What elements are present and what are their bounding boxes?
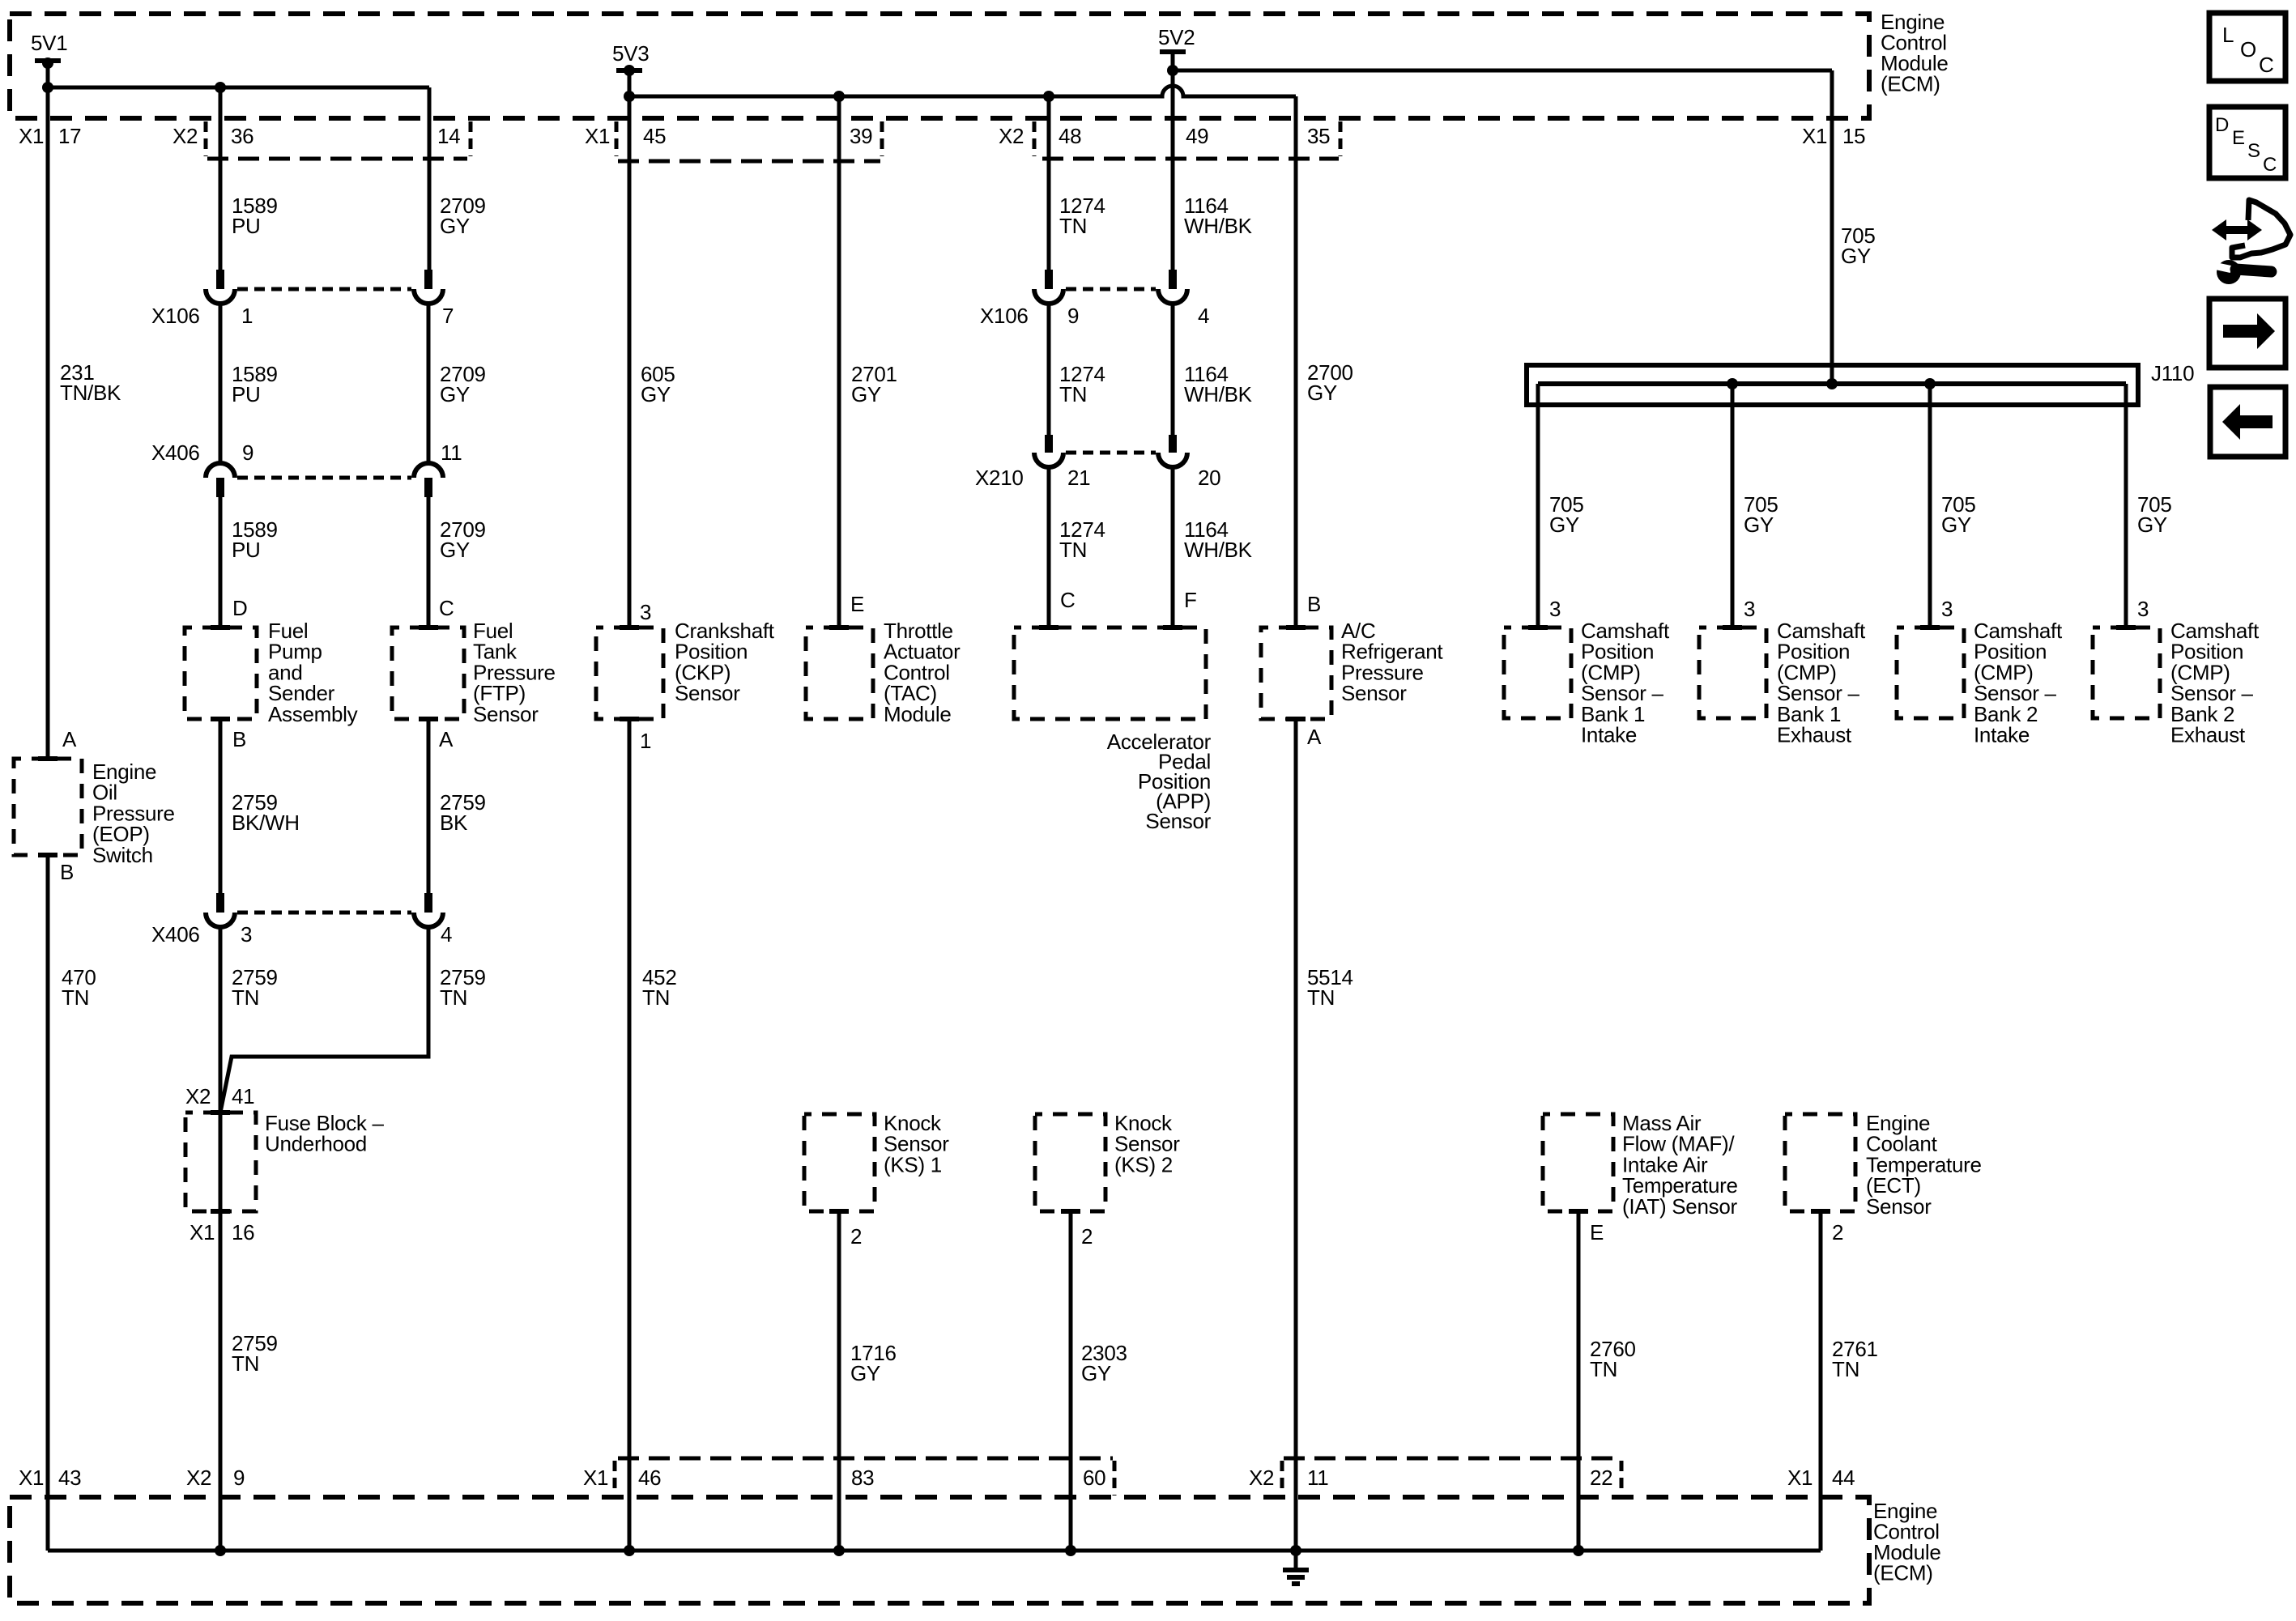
svg-text:L: L [2222, 23, 2234, 47]
svg-text:X1: X1 [583, 1466, 608, 1490]
svg-text:X2: X2 [186, 1466, 211, 1490]
svg-text:4: 4 [441, 922, 452, 947]
svg-text:3: 3 [1744, 597, 1755, 621]
svg-text:3: 3 [1941, 597, 1953, 621]
junction bus pin11 [1290, 1545, 1301, 1556]
pin X2 41 (fuse block) [185, 1084, 254, 1108]
wire rail from 5V2 to pin X1-15 [1173, 69, 1832, 73]
label 1274 TN seg3 [1059, 517, 1105, 562]
connector boundary X1 bottom [615, 1458, 1114, 1495]
connector boundary X2 top [206, 121, 471, 159]
wire 705 GY to CMP sensor 3 [1928, 384, 1932, 625]
connector X210 pin 21 [1034, 435, 1063, 467]
label 1589 PU seg3 [232, 517, 278, 562]
svg-text:22: 22 [1590, 1466, 1612, 1490]
svg-text:TN: TN [1059, 382, 1087, 406]
svg-text:B: B [232, 727, 246, 751]
svg-text:83: 83 [851, 1466, 874, 1490]
svg-text:GY: GY [440, 214, 470, 238]
wire 2709 GY seg2 [427, 303, 431, 465]
connector X406b link dashes [237, 911, 411, 915]
connector X406 pin 9 [206, 463, 235, 497]
svg-text:Sensor: Sensor [675, 681, 740, 705]
CMP sensor 3 label [1974, 619, 2063, 747]
svg-text:Intake: Intake [1581, 723, 1637, 747]
svg-text:D: D [232, 596, 247, 620]
label 2700 GY [1307, 360, 1353, 405]
svg-text:2: 2 [850, 1224, 862, 1249]
wire 1274 TN seg2 [1047, 303, 1051, 436]
engine oil pressure switch EOP box [14, 756, 82, 857]
svg-text:9: 9 [233, 1466, 245, 1490]
svg-text:A: A [1307, 725, 1322, 749]
svg-text:TN: TN [642, 985, 670, 1010]
ground bus wire inside ECM [48, 1549, 1821, 1553]
svg-text:X2: X2 [999, 124, 1024, 148]
CMP sensor 1 label [1581, 619, 1670, 747]
svg-text:E: E [2232, 127, 2245, 149]
pin X1 46 (ECM bottom) [583, 1466, 661, 1490]
svg-text:11: 11 [441, 440, 462, 465]
icon DESC box [2209, 107, 2285, 178]
label 2303 GY [1081, 1341, 1127, 1385]
camshaft position CMP sensor 3 box [1897, 625, 1964, 718]
wire 705 GY to CMP sensor 1 [1536, 384, 1540, 625]
svg-text:TN/BK: TN/BK [60, 381, 121, 405]
pin X2 9 (ECM bottom) [186, 1466, 245, 1490]
svg-text:(KS) 2: (KS) 2 [1114, 1152, 1173, 1176]
label 2709 GY seg3 [440, 517, 486, 562]
throttle actuator control TAC module box [806, 625, 873, 719]
label 2760 TN [1590, 1337, 1636, 1381]
svg-text:39: 39 [850, 124, 872, 148]
connector X210 link dashes [1066, 451, 1156, 455]
svg-text:TN: TN [1590, 1357, 1617, 1381]
wire 1274 TN from X2-48 [1047, 96, 1051, 271]
label 2759 TN (below fuse) [232, 1331, 278, 1376]
junction rail pin39 [833, 91, 845, 102]
wire 2759 TN joining fuse block [220, 926, 428, 1113]
svg-text:46: 46 [638, 1466, 661, 1490]
connector boundary X2b top [1034, 121, 1340, 159]
pin X2 36 (ECM) [173, 124, 253, 148]
svg-text:GY: GY [440, 538, 470, 562]
junction rail pin48 [1043, 91, 1054, 102]
label 1274 TN seg1 [1059, 194, 1105, 238]
FTP label [473, 619, 556, 726]
wire 2709 GY from pin 14 [428, 87, 432, 271]
connector X406 pin 3 [206, 893, 235, 927]
label 2759 TN (FTP branch) [440, 965, 486, 1010]
svg-text:B: B [60, 860, 74, 884]
crankshaft position CKP sensor box [596, 625, 663, 721]
svg-text:15: 15 [1842, 124, 1865, 148]
icon back-arrow box [2210, 387, 2285, 457]
svg-text:9: 9 [1067, 304, 1079, 328]
wire 1716 GY from KS1 to ECM 83 [837, 1211, 841, 1551]
svg-text:7: 7 [442, 304, 454, 328]
svg-text:X106: X106 [980, 304, 1029, 328]
label 231 TN/BK [60, 360, 121, 405]
CKP label [675, 619, 775, 705]
svg-text:17: 17 [58, 124, 81, 148]
MAF label [1622, 1111, 1738, 1219]
junction bus pin83 [833, 1545, 845, 1556]
connector X406b labels [151, 922, 252, 947]
fuse block label [265, 1111, 385, 1156]
svg-text:1: 1 [640, 729, 651, 753]
svg-text:Underhood: Underhood [265, 1132, 367, 1156]
svg-text:3: 3 [1549, 597, 1561, 621]
svg-text:14: 14 [437, 124, 460, 148]
mass air flow MAF IAT sensor box [1543, 1114, 1613, 1214]
label 1589 PU seg2 [232, 362, 278, 406]
engine coolant temperature ECT sensor box [1785, 1114, 1855, 1214]
junction bus pin60 [1065, 1545, 1076, 1556]
svg-text:41: 41 [232, 1084, 254, 1108]
knock sensor KS2 box [1035, 1114, 1105, 1214]
camshaft position CMP sensor 2 box [1699, 625, 1766, 718]
wire 2759 BK/WH [219, 719, 223, 895]
camshaft position CMP sensor 4 box [2093, 625, 2160, 718]
svg-text:J110: J110 [2151, 361, 2194, 385]
svg-text:3: 3 [2137, 597, 2149, 621]
svg-text:TN: TN [232, 1351, 259, 1376]
fuel pump and sender assembly box [185, 625, 257, 721]
splice pack J110 inner bus [1538, 381, 2126, 386]
svg-text:X1: X1 [19, 1466, 44, 1490]
svg-text:X1: X1 [585, 124, 610, 148]
connector X106 labels [151, 304, 253, 328]
ECM top dashed box [10, 14, 1869, 118]
wire 2700 GY from pin 35 to AC sensor [1294, 96, 1298, 625]
connector X210 labels [975, 466, 1090, 490]
pin X2 48 (ECM) [999, 124, 1081, 148]
wire 1274 TN seg3 [1047, 466, 1051, 625]
ECM bottom label [1873, 1499, 1940, 1585]
accelerator pedal position APP sensor box [1014, 625, 1206, 719]
svg-text:3: 3 [241, 922, 252, 947]
junction J110 feed [1826, 378, 1838, 389]
icon hand double-arrow [2212, 219, 2262, 240]
connector X106 pin 9 [1034, 270, 1063, 304]
svg-text:GY: GY [440, 382, 470, 406]
svg-text:GY: GY [641, 382, 671, 406]
connector X106 mid link dashes [1066, 287, 1156, 291]
wire 2759 BK [427, 719, 431, 895]
wire 605 GY from 5V3/X1-45 to CKP [628, 70, 632, 625]
svg-text:C: C [2263, 154, 2277, 176]
svg-text:TN: TN [1059, 214, 1087, 238]
svg-text:36: 36 [231, 124, 253, 148]
svg-text:(ECM): (ECM) [1881, 72, 1940, 96]
svg-text:E: E [850, 592, 864, 616]
label 605 GY [641, 362, 675, 406]
connector X106 mid labels [980, 304, 1079, 328]
icon next-arrow box [2209, 299, 2285, 368]
fuel pump label [268, 619, 358, 726]
connector X406 link dashes [237, 476, 411, 480]
svg-text:Intake: Intake [1974, 723, 2030, 747]
label 1164 WH/BK seg1 [1184, 194, 1253, 238]
pin X2 11 (ECM bottom) [1249, 1466, 1328, 1490]
svg-text:Sensor: Sensor [1866, 1194, 1932, 1219]
svg-text:WH/BK: WH/BK [1184, 538, 1253, 562]
svg-text:C: C [2259, 53, 2273, 77]
svg-text:16: 16 [232, 1220, 254, 1244]
svg-text:C: C [439, 596, 454, 620]
icon hand outline [2232, 200, 2290, 257]
svg-text:TN: TN [1059, 538, 1087, 562]
connector X106 pin 4 [1158, 270, 1187, 304]
label 705 GY (CMP 2) [1744, 492, 1778, 537]
svg-text:X106: X106 [151, 304, 200, 328]
svg-text:1: 1 [241, 304, 253, 328]
svg-text:TN: TN [440, 985, 467, 1010]
label 1164 WH/BK seg3 [1184, 517, 1253, 562]
label 2759 BK/WH [232, 790, 300, 835]
svg-text:S: S [2247, 140, 2260, 162]
svg-text:TN: TN [1307, 985, 1335, 1010]
svg-text:TN: TN [62, 985, 89, 1010]
svg-text:X406: X406 [151, 922, 200, 947]
svg-text:21: 21 [1067, 466, 1090, 490]
wire 1589 PU seg2 [219, 303, 223, 465]
CMP sensor 2 label [1777, 619, 1866, 747]
junction rail pin36 [215, 82, 226, 93]
svg-text:X1: X1 [1802, 124, 1827, 148]
svg-text:9: 9 [242, 440, 253, 465]
label 2759 TN (fuse above) [232, 965, 278, 1010]
wire 452 TN from CKP to ECM X1-46 [628, 719, 632, 1551]
svg-text:48: 48 [1059, 124, 1081, 148]
pin X1 16 (fuse block) [190, 1220, 254, 1244]
svg-text:GY: GY [1549, 513, 1579, 537]
APP label [1107, 730, 1212, 833]
pin X1 15 (ECM) [1802, 124, 1865, 148]
wire 705 GY to CMP sensor 4 [2124, 384, 2128, 625]
svg-text:43: 43 [58, 1466, 81, 1490]
label 705 GY (CMP 3) [1941, 492, 1975, 537]
svg-text:60: 60 [1083, 1466, 1105, 1490]
label 5514 TN [1307, 965, 1353, 1010]
svg-text:GY: GY [1941, 513, 1971, 537]
TAC label [884, 619, 961, 726]
wire rail from 5V1 [48, 86, 429, 90]
svg-text:X1: X1 [1787, 1466, 1813, 1490]
AC sensor label [1341, 619, 1443, 705]
svg-text:A: A [439, 727, 454, 751]
svg-text:35: 35 [1307, 124, 1330, 148]
wire 2303 GY from KS2 to ECM 60 [1069, 1211, 1073, 1551]
svg-text:GY: GY [850, 1361, 880, 1385]
wire 1589 PU from X2-36 [219, 87, 223, 271]
label 705 GY (CMP 1) [1549, 492, 1583, 537]
ECM top label [1881, 10, 1948, 96]
svg-text:(IAT) Sensor: (IAT) Sensor [1622, 1194, 1737, 1219]
label 1589 PU seg1 [232, 194, 278, 238]
connector X106 pin 7 [414, 270, 443, 304]
svg-text:Sensor: Sensor [1145, 809, 1211, 833]
label 705 GY (X1-15) [1841, 223, 1875, 268]
svg-text:GY: GY [2137, 513, 2167, 537]
junction J110 cmp3 [1924, 378, 1936, 389]
junction 5V2 rail [1167, 65, 1178, 76]
svg-text:X210: X210 [975, 466, 1024, 490]
knock sensor KS1 box [804, 1114, 875, 1214]
svg-text:2: 2 [1832, 1220, 1843, 1244]
svg-text:E: E [1590, 1220, 1604, 1244]
svg-text:3: 3 [640, 600, 651, 624]
svg-text:X2: X2 [173, 124, 198, 148]
wire 1164 WH/BK seg2 [1171, 303, 1175, 436]
svg-text:5V3: 5V3 [612, 41, 649, 66]
wire 2761 TN from ECT to ECM X1-44 [1819, 1211, 1823, 1551]
svg-text:GY: GY [851, 382, 881, 406]
connector X106 pin 1 [206, 270, 235, 304]
CMP sensor 4 label [2170, 619, 2260, 747]
svg-text:X1: X1 [190, 1220, 215, 1244]
svg-text:Switch: Switch [92, 843, 153, 867]
connector boundary X1 top [616, 121, 882, 161]
EOP label [92, 759, 175, 867]
wire 470 TN from EOP to ECM X1-43 [46, 855, 50, 1551]
ECM bottom dashed box [10, 1497, 1869, 1603]
svg-text:F: F [1184, 588, 1197, 612]
svg-text:BK/WH: BK/WH [232, 810, 300, 835]
svg-text:45: 45 [643, 124, 666, 148]
junction bus pin22 [1573, 1545, 1584, 1556]
wire 2760 TN from MAF to ECM 22 [1577, 1211, 1581, 1551]
svg-text:GY: GY [1081, 1361, 1111, 1385]
svg-text:A: A [62, 727, 77, 751]
wire 2701 GY from pin 39 to TAC [837, 96, 841, 625]
svg-text:PU: PU [232, 382, 261, 406]
svg-text:49: 49 [1186, 124, 1208, 148]
connector boundary X2 bottom [1282, 1458, 1621, 1495]
svg-text:4: 4 [1198, 304, 1209, 328]
wire 2709 GY seg3 [427, 497, 431, 625]
svg-text:Sensor: Sensor [473, 702, 539, 726]
KS2 label [1114, 1111, 1180, 1176]
svg-text:44: 44 [1832, 1466, 1855, 1490]
svg-text:20: 20 [1198, 466, 1220, 490]
svg-text:GY: GY [1307, 381, 1337, 405]
wire 705 GY to CMP sensor 2 [1731, 384, 1735, 625]
ground symbol [1283, 1551, 1309, 1584]
svg-text:TN: TN [1832, 1357, 1859, 1381]
svg-text:WH/BK: WH/BK [1184, 214, 1253, 238]
node 5V1 [31, 31, 67, 69]
junction J110 cmp2 [1727, 378, 1738, 389]
KS1 label [884, 1111, 949, 1176]
svg-text:BK: BK [440, 810, 468, 835]
node 5V2 [1158, 25, 1195, 52]
wire 2759 TN to fuse block [219, 926, 223, 1551]
svg-text:WH/BK: WH/BK [1184, 382, 1253, 406]
svg-text:Exhaust: Exhaust [1777, 723, 1852, 747]
svg-text:C: C [1060, 588, 1075, 612]
svg-text:PU: PU [232, 214, 261, 238]
svg-text:Assembly: Assembly [268, 702, 358, 726]
splice pack J110 outer [1527, 365, 2138, 405]
svg-text:X2: X2 [1249, 1466, 1274, 1490]
junction 5V3 rail [624, 91, 635, 102]
label 2761 TN [1832, 1337, 1878, 1381]
label 1274 TN seg2 [1059, 362, 1105, 406]
connector X210 pin 20 [1158, 435, 1187, 467]
junction 5V1 rail [42, 82, 53, 93]
svg-text:Exhaust: Exhaust [2170, 723, 2246, 747]
pin X1 17 (ECM) [19, 124, 81, 148]
svg-text:TN: TN [232, 985, 259, 1010]
svg-text:PU: PU [232, 538, 261, 562]
pin X1 45 (ECM) [585, 124, 666, 148]
label 2759 BK [440, 790, 486, 835]
label 470 TN [62, 965, 96, 1010]
svg-text:B: B [1307, 592, 1321, 616]
label 705 GY (CMP 4) [2137, 492, 2171, 537]
svg-text:GY: GY [1744, 513, 1774, 537]
wire 1164 WH/BK seg3 [1171, 466, 1175, 625]
svg-text:Module: Module [884, 702, 951, 726]
connector X406 pin 11 [414, 463, 443, 497]
label 1164 WH/BK seg2 [1184, 362, 1253, 406]
junction bus pin9 [215, 1545, 226, 1556]
svg-text:X2: X2 [185, 1084, 211, 1108]
svg-text:(KS) 1: (KS) 1 [884, 1152, 942, 1176]
wire 5V1 stub [46, 61, 50, 87]
connector X406 pin 4 [414, 893, 443, 927]
wire 5514 TN from AC sensor to ECM X2-11 [1294, 719, 1298, 1551]
icon LOC box [2209, 13, 2285, 81]
wire 705 GY from X1-15 to J110 [1830, 70, 1834, 384]
label 1716 GY [850, 1341, 897, 1385]
svg-text:(ECM): (ECM) [1873, 1561, 1933, 1585]
node 5V3 [612, 41, 649, 76]
svg-text:5V1: 5V1 [31, 31, 67, 55]
pin X1 43 (ECM bottom) [19, 1466, 81, 1490]
label 2709 GY seg2 [440, 362, 486, 406]
pin X1 44 (ECM bottom) [1787, 1466, 1855, 1490]
svg-text:X406: X406 [151, 440, 200, 465]
svg-text:O: O [2240, 37, 2256, 62]
connector X406 labels [151, 440, 253, 465]
label 452 TN [642, 965, 676, 1010]
svg-text:2: 2 [1081, 1224, 1093, 1249]
svg-text:X1: X1 [19, 124, 44, 148]
label 2701 GY [851, 362, 897, 406]
svg-text:Sensor: Sensor [1341, 681, 1407, 705]
wire rail from 5V3 with hop over 5V2 wire [629, 86, 1296, 96]
ECT label [1866, 1111, 1982, 1219]
wire 1589 PU seg3 [219, 497, 223, 625]
wire 1164 WH/BK from pin 49 [1171, 52, 1175, 271]
icon wrench [2214, 260, 2277, 284]
camshaft position CMP sensor 1 box [1504, 625, 1571, 718]
wire 231 TN/BK from X1-17 to EOP switch [46, 87, 50, 756]
svg-text:11: 11 [1307, 1466, 1328, 1490]
svg-text:D: D [2215, 114, 2229, 136]
fuse block underhood box [185, 1110, 256, 1214]
connector X106 link dashes [237, 287, 411, 291]
svg-text:5V2: 5V2 [1158, 25, 1195, 49]
svg-text:GY: GY [1841, 244, 1871, 268]
junction bus pin46 [624, 1545, 635, 1556]
fuel tank pressure FTP sensor box [392, 625, 464, 721]
label 2709 GY seg1 [440, 194, 486, 238]
AC refrigerant pressure sensor box [1261, 625, 1331, 721]
